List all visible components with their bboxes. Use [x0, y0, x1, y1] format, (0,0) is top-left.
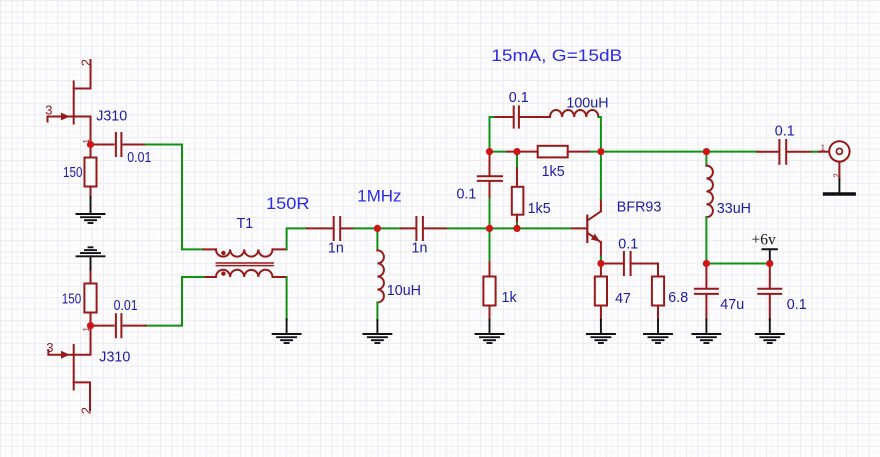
resistor R1 150 upper [85, 145, 97, 198]
node junction main x517 [513, 225, 520, 232]
wire mid rail [490, 151, 758, 153]
label 1k5 horizontal [542, 164, 565, 180]
label 0.1 emitter [618, 236, 638, 252]
ground bar connector [825, 179, 855, 194]
transistor Q3 J310 lower JFET [48, 326, 90, 410]
svg-text:0.01: 0.01 [127, 150, 151, 166]
capacitor C2 1n first [307, 217, 354, 240]
svg-text:1: 1 [821, 144, 826, 153]
label 33uH [717, 201, 751, 217]
svg-text:J310: J310 [96, 108, 127, 124]
svg-text:33uH: 33uH [717, 201, 751, 217]
pin 1 label upper JFET [82, 139, 91, 144]
ground transformer bottom right [273, 277, 301, 343]
ground above R7 inverted [77, 247, 105, 269]
label 10uH [387, 283, 421, 299]
node junction supply right [766, 260, 773, 267]
svg-text:150R: 150R [266, 194, 310, 213]
inductor L2 100uH [550, 110, 598, 117]
capacitor C7 47u [695, 264, 718, 334]
svg-text:0.1: 0.1 [618, 236, 638, 252]
transistor Q1 J310 upper JFET [48, 60, 91, 145]
node junction mid x517 [513, 148, 520, 155]
wire feedback top corner [490, 117, 496, 152]
svg-text:100uH: 100uH [566, 96, 608, 112]
node junction emitter [597, 260, 604, 267]
transistor Q2 BFR93 [572, 199, 601, 257]
label 0.01 upper [127, 150, 151, 166]
resistor R6 6.8 [652, 264, 664, 334]
svg-text:2: 2 [832, 173, 841, 178]
wire output stub [812, 151, 819, 153]
svg-text:0.01: 0.01 [114, 298, 138, 314]
ground under 1k [476, 334, 504, 343]
inductor L3 33uH [706, 152, 713, 264]
capacitor C8 0.1 supply [758, 264, 781, 334]
label T1 [237, 216, 254, 232]
svg-text:47u: 47u [720, 297, 744, 313]
svg-text:6.8: 6.8 [668, 290, 688, 306]
pin 2 label connector [832, 173, 841, 178]
ground under 6.8 [644, 334, 672, 343]
svg-text:J310: J310 [99, 349, 130, 365]
pin 2 label lower JFET [78, 407, 93, 414]
svg-text:3: 3 [46, 340, 53, 355]
label 1k5 vertical [528, 201, 551, 217]
resistor R3 1k5 vertical [512, 152, 524, 229]
label 1k [502, 290, 518, 306]
pin 1 label connector [821, 144, 826, 153]
ground under 0.1 supply [756, 334, 784, 343]
ground under R1 [77, 197, 105, 223]
resistor R4 1k5 horizontal [507, 146, 589, 158]
label 100uH [566, 96, 608, 112]
wire transformer top right jog to main line [287, 228, 307, 249]
capacitor C5 0.1 feedback [495, 106, 550, 127]
label 0.01 lower [114, 298, 138, 314]
label 47 [615, 291, 631, 307]
svg-text:0.1: 0.1 [775, 124, 795, 140]
wire main line to bias nodes [448, 227, 571, 229]
annotation 15mA G=15dB [491, 46, 622, 65]
svg-text:+6v: +6v [752, 232, 776, 249]
connector J2 output [819, 141, 850, 179]
svg-text:2: 2 [79, 59, 94, 66]
label 0.1 shunt [457, 186, 477, 202]
node junction main x489 [486, 225, 493, 232]
label 1n first [328, 240, 344, 256]
svg-text:1k: 1k [502, 290, 518, 306]
label BFR93 [617, 200, 662, 216]
svg-text:10uH: 10uH [387, 283, 421, 299]
resistor R7 150 lower [84, 270, 96, 326]
pin 1 label lower JFET [82, 327, 91, 332]
inductor L1 10uH [377, 228, 384, 333]
power +6v [752, 232, 777, 264]
label 0.1 supply [787, 297, 807, 313]
label 0.1 output [775, 124, 795, 140]
resistor R5 47 [595, 264, 607, 334]
label 1n second [412, 240, 428, 256]
label J310 lower [99, 349, 130, 365]
svg-text:150: 150 [63, 165, 83, 181]
svg-text:0.1: 0.1 [509, 90, 529, 106]
ground under 47 [587, 334, 615, 343]
capacitor C4 0.1 shunt vertical [478, 152, 502, 229]
ground under 47u [692, 334, 720, 343]
resistor R2 1k [483, 228, 495, 333]
node junction mid x489 [486, 148, 493, 155]
svg-text:1n: 1n [412, 240, 428, 256]
svg-text:47: 47 [615, 291, 631, 307]
capacitor C6 0.1 emitter [601, 252, 658, 275]
svg-text:2: 2 [78, 407, 93, 414]
pin 3 label lower JFET [46, 340, 53, 355]
node junction mid x706 [703, 148, 710, 155]
pin 2 label upper JFET [79, 59, 94, 66]
node junction mid x601 [597, 148, 604, 155]
svg-text:1k5: 1k5 [542, 164, 565, 180]
label 6.8 [668, 290, 688, 306]
svg-text:0.1: 0.1 [457, 186, 477, 202]
transformer T1 [204, 249, 287, 277]
annotation 1MHz [357, 187, 401, 206]
pin 3 label upper JFET [45, 102, 52, 117]
wire transformer bottom to lower cap [146, 277, 204, 326]
svg-text:15mA, G=15dB: 15mA, G=15dB [491, 46, 622, 65]
label 150 lower [62, 292, 82, 308]
label 0.1 feedback [509, 90, 529, 106]
capacitor C3 1n second [401, 217, 448, 240]
svg-text:0.1: 0.1 [787, 297, 807, 313]
node junction lower FET source [87, 322, 94, 329]
label 150 upper [63, 165, 83, 181]
label J310 upper [96, 108, 127, 124]
svg-text:150: 150 [62, 292, 82, 308]
annotation 150R [266, 194, 310, 213]
wire upper FET to transformer top [146, 145, 204, 250]
svg-text:3: 3 [45, 102, 52, 117]
wire 100uH to collector rail [598, 117, 601, 152]
node junction supply left [703, 260, 710, 267]
svg-text:1MHz: 1MHz [357, 187, 401, 206]
wire emitter stub [600, 257, 602, 264]
svg-text:1n: 1n [328, 240, 344, 256]
node junction upper FET source [87, 141, 94, 148]
wire to node A [354, 227, 401, 229]
svg-text:T1: T1 [237, 216, 254, 232]
capacitor C1 0.01 upper [91, 133, 147, 156]
capacitor C10 0.01 lower [91, 314, 147, 337]
label 47u [720, 297, 744, 313]
capacitor C9 0.1 output [757, 140, 811, 164]
svg-text:BFR93: BFR93 [617, 200, 662, 216]
wire collector [600, 152, 602, 200]
svg-text:1k5: 1k5 [528, 201, 551, 217]
ground under 10uH [363, 334, 391, 343]
node junction 10uH tap [374, 225, 381, 232]
wire supply rail [706, 263, 769, 265]
